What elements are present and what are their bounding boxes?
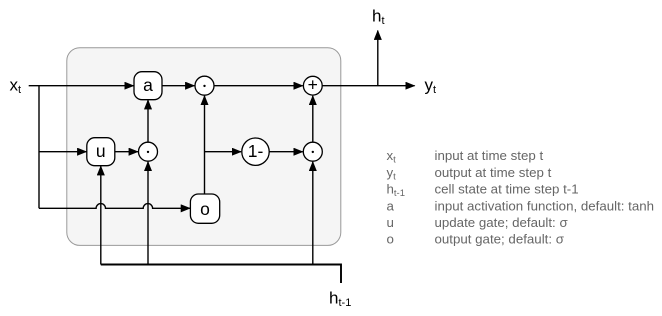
svg-text:input at time step t: input at time step t <box>435 148 544 163</box>
svg-text:xt: xt <box>10 76 22 97</box>
svg-text:a: a <box>143 75 153 95</box>
svg-text:o: o <box>387 232 394 247</box>
svg-text:+: + <box>308 75 318 95</box>
svg-text:xt: xt <box>387 148 397 166</box>
svg-text:a: a <box>387 198 395 213</box>
svg-text:u: u <box>387 215 394 230</box>
svg-text:ht-1: ht-1 <box>387 182 406 200</box>
svg-text:cell state at time step t-1: cell state at time step t-1 <box>435 182 579 197</box>
svg-text:ht-1: ht-1 <box>329 288 351 309</box>
svg-text:1-: 1- <box>248 141 264 161</box>
svg-text:yt: yt <box>387 165 397 183</box>
svg-text:input activation function, def: input activation function, default: tanh <box>435 198 655 213</box>
svg-text:ht: ht <box>372 6 385 27</box>
svg-text:output gate; default: σ: output gate; default: σ <box>435 232 564 247</box>
svg-text:o: o <box>200 199 210 219</box>
svg-text:output at time step t: output at time step t <box>435 165 552 180</box>
svg-text:update gate; default: σ: update gate; default: σ <box>435 215 568 230</box>
svg-text:u: u <box>96 141 106 161</box>
svg-text:yt: yt <box>425 76 437 97</box>
